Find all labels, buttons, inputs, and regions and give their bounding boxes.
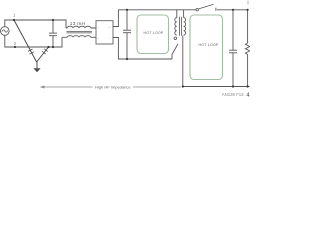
break slashes right arm bbox=[42, 49, 48, 54]
cropped tick top right bbox=[247, 1, 249, 5]
svg-text:2: 2 bbox=[14, 41, 17, 46]
AC source V1 bbox=[1, 27, 10, 36]
transformer core bbox=[180, 17, 182, 36]
wire top rail (DC) bbox=[118, 9, 196, 11]
svg-text:~: ~ bbox=[98, 37, 100, 40]
svg-text:13 mH: 13 mH bbox=[70, 21, 86, 27]
load resistor R1 bbox=[247, 10, 249, 43]
switch S1 lever bbox=[199, 4, 214, 9]
svg-text:AN139 F13: AN139 F13 bbox=[222, 92, 244, 97]
output capacitor C2 bbox=[232, 10, 234, 50]
svg-text:HOT LOOP: HOT LOOP bbox=[198, 43, 218, 47]
transformer T1 primary winding bbox=[175, 18, 177, 36]
transformer T1 primary stem bbox=[176, 10, 178, 18]
svg-text:High HF Impedance: High HF Impedance bbox=[95, 85, 131, 90]
antenna stem bbox=[36, 62, 38, 68]
wire bridge out bottom bbox=[113, 38, 172, 60]
wire top-left rail bbox=[5, 20, 66, 28]
switch Q1 contact bbox=[174, 37, 177, 40]
antenna lead from node 2 bbox=[37, 47, 49, 62]
common-mode choke L1 bottom winding bbox=[62, 36, 96, 38]
bulk capacitor C1 bbox=[126, 10, 128, 30]
capacitor CX (X-cap) bbox=[52, 20, 54, 33]
wire switch to rail bbox=[171, 55, 173, 60]
transformer T1 secondary stem bbox=[183, 10, 185, 18]
svg-text:~: ~ bbox=[98, 26, 100, 29]
switch Q1 lever bbox=[172, 44, 178, 55]
break slashes left arm bbox=[28, 49, 34, 54]
switch S1 right contact bbox=[215, 8, 217, 11]
svg-text:+: + bbox=[109, 26, 111, 29]
wire bridge out top bbox=[113, 10, 118, 27]
annotation arrow High HF Impedance bbox=[40, 86, 181, 89]
svg-text:−: − bbox=[109, 37, 111, 40]
hot loop box 2 bbox=[190, 15, 223, 80]
svg-text:HOT LOOP: HOT LOOP bbox=[143, 31, 163, 35]
hot loop box 1 bbox=[137, 15, 169, 54]
wire bottom-left rail bbox=[5, 35, 62, 47]
wire secondary return bbox=[182, 36, 184, 87]
bridge pin marks bbox=[98, 26, 111, 40]
antenna arrowhead bbox=[33, 68, 40, 72]
common-mode choke L1 top winding bbox=[66, 26, 96, 28]
svg-text:1: 1 bbox=[13, 12, 16, 17]
switch S1 left contact bbox=[196, 9, 198, 11]
wire top rail right bbox=[217, 9, 248, 11]
junction dots bbox=[13, 9, 249, 88]
choke core bbox=[67, 31, 93, 33]
svg-text:4: 4 bbox=[246, 92, 249, 98]
antenna lead from node 1 bbox=[14, 20, 37, 62]
wire bottom-right rail bbox=[183, 86, 250, 88]
transformer T1 secondary winding bbox=[184, 18, 186, 36]
bridge rectifier BR1 bbox=[96, 21, 113, 44]
